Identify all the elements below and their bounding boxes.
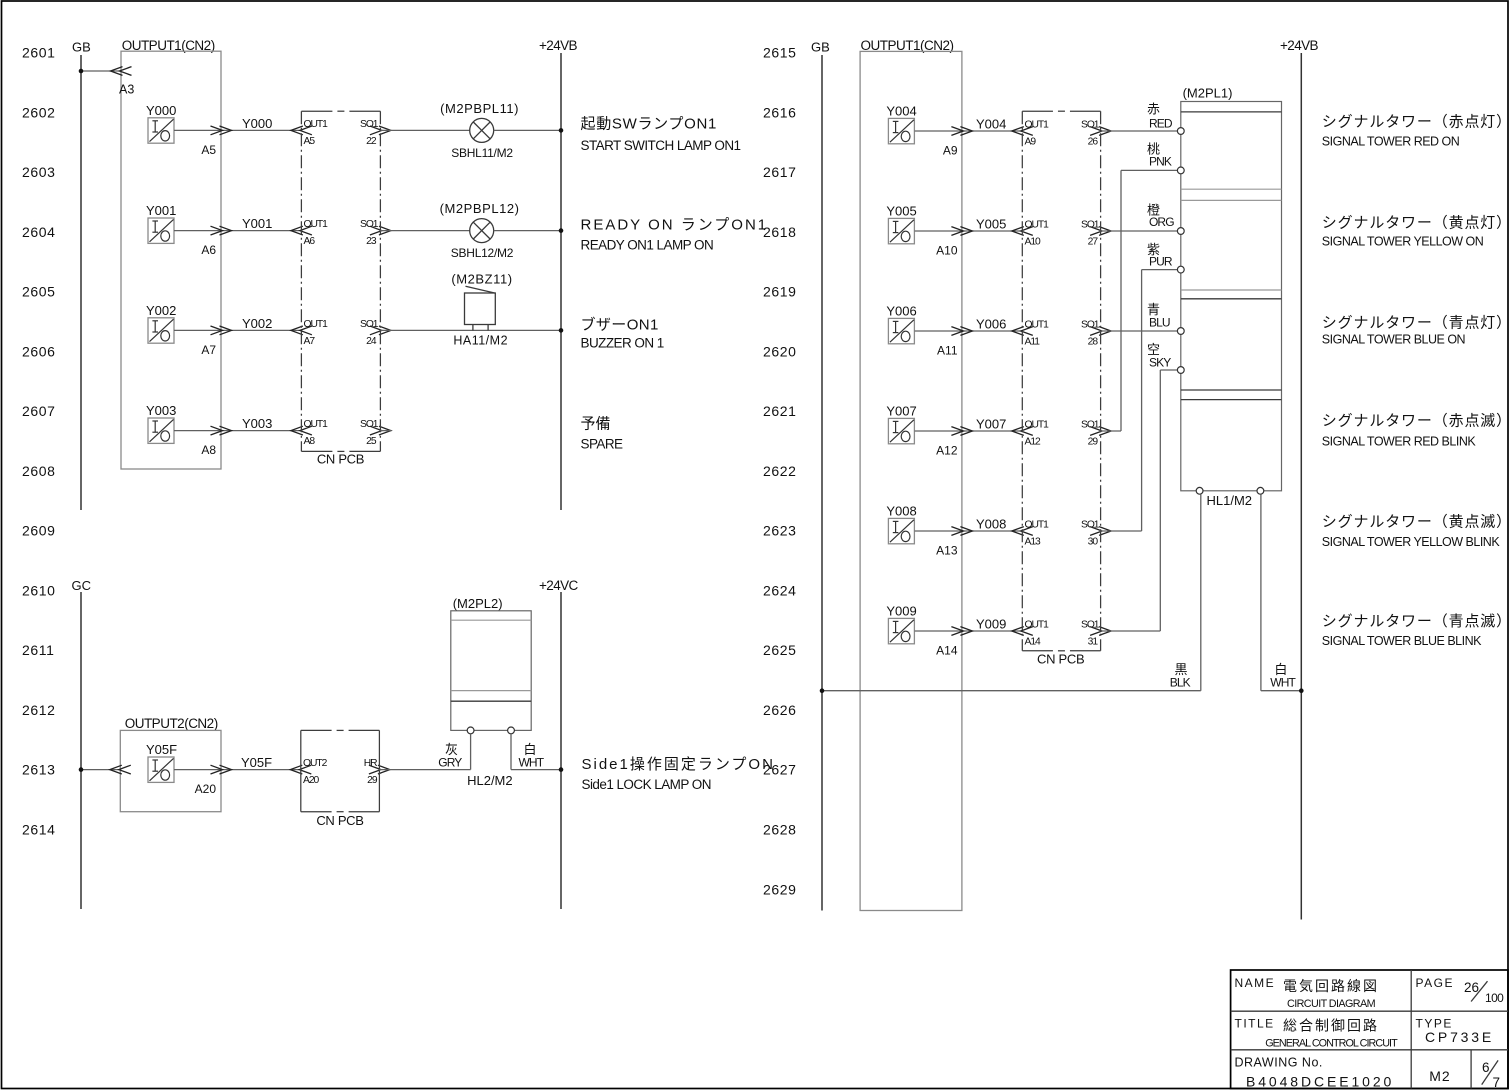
svg-text:PNK: PNK xyxy=(1149,155,1172,169)
svg-text:ORG: ORG xyxy=(1149,215,1174,229)
svg-text:2606: 2606 xyxy=(22,343,56,359)
svg-text:2610: 2610 xyxy=(22,582,56,598)
lamp SBHL12/M2 wire left segment xyxy=(380,230,469,232)
CN PCB pin labels row Y009 xyxy=(1025,620,1100,648)
wire color label PNK xyxy=(1147,141,1172,168)
svg-text:SBHL11/M2: SBHL11/M2 xyxy=(451,146,513,160)
wire Y005 from I/O to CN PCB xyxy=(915,230,1023,232)
svg-text:シグナルタワー（黄点灯）: シグナルタワー（黄点灯） xyxy=(1322,215,1512,232)
svg-text:(M2PL2): (M2PL2) xyxy=(453,596,503,611)
svg-text:WHT: WHT xyxy=(519,756,545,770)
junction dot +24VB row 2604 xyxy=(559,228,564,233)
wire color label PUR xyxy=(1147,242,1173,269)
wire HR to lamp HL2/M2 xyxy=(379,769,470,771)
svg-text:(M2PBPL12): (M2PBPL12) xyxy=(440,201,520,216)
svg-text:2615: 2615 xyxy=(763,45,797,61)
svg-text:Y001: Y001 xyxy=(242,216,272,231)
I/O output block Y007 xyxy=(886,404,916,444)
svg-text:READY ON1 LAMP ON: READY ON1 LAMP ON xyxy=(581,238,714,253)
buzzer HA11/M2 wire xyxy=(380,329,561,331)
svg-text:OUT1: OUT1 xyxy=(1025,620,1050,631)
lamp SBHL12/M2 wire right segment xyxy=(494,230,561,232)
svg-text:電気回路線図: 電気回路線図 xyxy=(1283,978,1379,994)
svg-text:2619: 2619 xyxy=(763,284,797,300)
wire Y000 from I/O to CN PCB xyxy=(174,129,301,131)
svg-text:2608: 2608 xyxy=(22,463,56,479)
svg-text:26: 26 xyxy=(1464,980,1479,995)
svg-text:A9: A9 xyxy=(1025,137,1037,148)
svg-text:空: 空 xyxy=(1147,342,1160,357)
arrow into CN PCB OUT1 row Y002 xyxy=(291,326,312,335)
svg-text:Y05F: Y05F xyxy=(241,755,272,770)
svg-text:OUT2: OUT2 xyxy=(303,758,328,769)
svg-text:6: 6 xyxy=(1482,1060,1490,1075)
svg-text:Y002: Y002 xyxy=(146,303,176,318)
arrow into CN PCB OUT1 row Y003 xyxy=(291,426,312,435)
svg-text:2603: 2603 xyxy=(22,164,56,180)
wire color label WHT tower xyxy=(1270,662,1296,689)
svg-text:+24VC: +24VC xyxy=(539,578,579,593)
svg-text:A14: A14 xyxy=(936,643,958,657)
svg-text:赤: 赤 xyxy=(1147,102,1160,117)
junction dot on GB bus xyxy=(820,688,825,693)
wire Y003 from I/O to CN PCB xyxy=(174,430,301,432)
net GB right bus wire xyxy=(821,55,823,911)
svg-text:SIGNAL TOWER RED BLINK: SIGNAL TOWER RED BLINK xyxy=(1322,435,1477,449)
terminal WHT of HL2/M2 xyxy=(508,727,515,734)
wire BLK vertical xyxy=(1200,494,1202,691)
svg-text:SIGNAL TOWER RED ON: SIGNAL TOWER RED ON xyxy=(1322,134,1460,148)
arrow out of CN PCB SO1 pin 22 xyxy=(370,126,391,135)
arrow out of OUTPUT2 pin A20 xyxy=(211,765,232,774)
svg-text:B4048DCEE1020: B4048DCEE1020 xyxy=(1246,1074,1394,1090)
svg-text:シグナルタワー（赤点灯）: シグナルタワー（赤点灯） xyxy=(1322,114,1512,131)
svg-text:START SWITCH LAMP ON1: START SWITCH LAMP ON1 xyxy=(581,138,741,153)
svg-text:OUT1: OUT1 xyxy=(1025,420,1050,431)
svg-text:A8: A8 xyxy=(304,436,316,447)
tower terminal BLK bottom xyxy=(1196,487,1203,494)
wire color label GRY xyxy=(438,742,462,770)
svg-text:A8: A8 xyxy=(201,443,216,457)
svg-text:31: 31 xyxy=(1088,637,1099,648)
svg-text:2609: 2609 xyxy=(22,523,56,539)
svg-text:2622: 2622 xyxy=(763,463,797,479)
svg-text:Y007: Y007 xyxy=(976,417,1006,432)
svg-text:2611: 2611 xyxy=(22,642,55,658)
svg-text:Y006: Y006 xyxy=(976,317,1006,332)
svg-text:23: 23 xyxy=(366,236,377,247)
svg-text:24: 24 xyxy=(366,336,377,347)
CN PCB pin labels row Y004 xyxy=(1025,120,1100,148)
arrow out of OUTPUT1 pin A10 xyxy=(951,227,972,236)
svg-text:OUT1: OUT1 xyxy=(1025,320,1050,331)
wire pin30 to tower PUR xyxy=(1101,270,1178,531)
arrow out of OUTPUT1 pin A7 xyxy=(211,326,232,335)
title block PAGE cell xyxy=(1416,976,1505,1005)
CN PCB pin labels row Y002 xyxy=(304,319,379,347)
arrow out of OUTPUT1 pin A5 xyxy=(211,126,232,135)
svg-text:2602: 2602 xyxy=(22,104,56,120)
title block NAME cell xyxy=(1235,976,1380,1010)
CN PCB box left (dash-dot) xyxy=(301,111,380,451)
CN PCB pin labels row Y003 xyxy=(304,419,379,447)
net +24VB left bus wire xyxy=(560,53,562,510)
net +24VB right bus wire xyxy=(1300,53,1302,920)
svg-text:A11: A11 xyxy=(937,343,958,357)
svg-text:PAGE: PAGE xyxy=(1416,976,1454,990)
svg-text:総合制御回路: 総合制御回路 xyxy=(1283,1018,1379,1034)
svg-text:DRAWING No.: DRAWING No. xyxy=(1235,1056,1323,1070)
tower terminal PNK xyxy=(1177,167,1184,174)
arrow into CN PCB OUT1 row Y001 xyxy=(291,226,312,235)
svg-text:2607: 2607 xyxy=(22,403,56,419)
svg-text:2624: 2624 xyxy=(763,582,797,598)
svg-text:2605: 2605 xyxy=(22,284,56,300)
svg-text:2620: 2620 xyxy=(763,343,797,359)
svg-text:OUT1: OUT1 xyxy=(304,119,329,130)
arrow out of OUTPUT1 pin A14 xyxy=(951,627,972,636)
wire pin27 to tower ORG xyxy=(1101,230,1178,232)
svg-text:A7: A7 xyxy=(201,343,216,357)
svg-text:A10: A10 xyxy=(1025,237,1041,248)
svg-text:Side1 LOCK LAMP ON: Side1 LOCK LAMP ON xyxy=(582,777,711,792)
CN PCB pin labels row Y001 xyxy=(304,219,379,247)
svg-text:(M2PBPL11): (M2PBPL11) xyxy=(440,101,519,116)
CN PCB pin labels row Y008 xyxy=(1025,520,1100,548)
svg-text:OUT1: OUT1 xyxy=(1025,120,1050,131)
svg-text:Y008: Y008 xyxy=(886,504,916,519)
arrow into OUTPUT2 pin A20 xyxy=(110,765,131,774)
svg-text:Y009: Y009 xyxy=(976,617,1006,632)
svg-text:2628: 2628 xyxy=(763,822,797,838)
I/O output block Y006 xyxy=(886,304,916,344)
svg-text:30: 30 xyxy=(1088,537,1099,548)
svg-text:2623: 2623 xyxy=(763,523,797,539)
junction dot +24VC row 2613 xyxy=(559,767,564,772)
junction on GB at A3 xyxy=(79,69,84,74)
arrow into CN PCB OUT1 row Y007 xyxy=(1012,427,1033,436)
net +24VC bus wire xyxy=(560,592,562,909)
svg-text:(M2PL1): (M2PL1) xyxy=(1183,85,1233,100)
wire color label BLK xyxy=(1170,662,1191,689)
svg-text:Y003: Y003 xyxy=(146,403,176,418)
svg-text:A9: A9 xyxy=(943,143,958,157)
svg-text:シグナルタワー（青点灯）: シグナルタワー（青点灯） xyxy=(1322,314,1512,331)
svg-text:Y007: Y007 xyxy=(886,404,916,419)
svg-text:A7: A7 xyxy=(304,336,316,347)
svg-text:予備: 予備 xyxy=(581,416,611,433)
wire pin31 to tower SKY xyxy=(1101,370,1178,631)
svg-text:BUZZER ON 1: BUZZER ON 1 xyxy=(581,336,664,351)
svg-text:シグナルタワー（青点滅）: シグナルタワー（青点滅） xyxy=(1322,613,1512,630)
svg-text:27: 27 xyxy=(1088,237,1099,248)
svg-text:(M2BZ11): (M2BZ11) xyxy=(451,272,512,287)
svg-text:A13: A13 xyxy=(936,543,958,557)
title block sheet 6/7 cell xyxy=(1482,1060,1500,1090)
arrow out of OUTPUT1 pin A8 xyxy=(211,426,232,435)
arrow out of CN PCB SO1 pin 25 xyxy=(370,426,391,435)
arrow out of CN PCB SO1 pin 26 xyxy=(1090,127,1111,136)
svg-text:22: 22 xyxy=(366,136,377,147)
svg-text:CN PCB: CN PCB xyxy=(1037,652,1084,667)
terminal GRY of HL2/M2 xyxy=(467,727,474,734)
arrow into OUTPUT1 pin A3 xyxy=(111,67,132,76)
svg-text:Y002: Y002 xyxy=(242,316,272,331)
arrow into CN PCB OUT1 row Y008 xyxy=(1012,527,1033,536)
svg-text:Y000: Y000 xyxy=(242,116,272,131)
svg-text:OUT1: OUT1 xyxy=(304,319,329,330)
arrow out of OUTPUT1 pin A12 xyxy=(951,427,972,436)
svg-text:Y008: Y008 xyxy=(976,517,1006,532)
wire Y003 spare stub xyxy=(380,430,391,432)
lamp unit M2PL2 box xyxy=(451,611,531,731)
arrow out of CN PCB HR pin 29 xyxy=(369,765,390,774)
wire pin28 to tower BLU xyxy=(1101,330,1178,332)
svg-text:A13: A13 xyxy=(1025,537,1041,548)
arrow out of CN PCB SO1 pin 31 xyxy=(1090,627,1111,636)
svg-text:HL2/M2: HL2/M2 xyxy=(467,773,513,788)
svg-text:25: 25 xyxy=(366,436,377,447)
svg-text:2614: 2614 xyxy=(22,822,56,838)
svg-text:BLU: BLU xyxy=(1149,315,1170,329)
svg-text:7: 7 xyxy=(1493,1075,1501,1090)
svg-text:A14: A14 xyxy=(1025,637,1041,648)
arrow out of CN PCB SO1 pin 27 xyxy=(1090,227,1111,236)
svg-text:2621: 2621 xyxy=(763,403,797,419)
svg-text:Y004: Y004 xyxy=(886,104,916,119)
arrow into CN PCB OUT1 row Y000 xyxy=(291,126,312,135)
lamp SBHL12/M2 symbol xyxy=(470,219,494,243)
wire Y001 from I/O to CN PCB xyxy=(174,230,301,232)
svg-text:CP733E: CP733E xyxy=(1425,1029,1494,1045)
CN PCB box lower-left (dash-dot) xyxy=(301,730,380,811)
svg-text:HL1/M2: HL1/M2 xyxy=(1207,493,1253,508)
svg-text:RED: RED xyxy=(1149,117,1173,131)
CN PCB pin labels row Y006 xyxy=(1025,320,1100,348)
svg-text:Y009: Y009 xyxy=(886,604,916,619)
wire GRY stub xyxy=(470,734,472,770)
svg-text:2617: 2617 xyxy=(763,164,797,180)
svg-text:Y005: Y005 xyxy=(976,217,1006,232)
svg-text:TITLE: TITLE xyxy=(1235,1016,1275,1030)
svg-text:29: 29 xyxy=(1088,437,1099,448)
svg-text:Side1操作固定ランプON: Side1操作固定ランプON xyxy=(582,756,775,773)
svg-text:OUT1: OUT1 xyxy=(304,419,329,430)
svg-text:OUT1: OUT1 xyxy=(304,219,329,230)
connector OUTPUT1(CN2) left box xyxy=(121,51,221,469)
tower terminal WHT bottom xyxy=(1257,487,1264,494)
CN PCB pin labels row Y000 xyxy=(304,119,379,147)
svg-text:CIRCUIT DIAGRAM: CIRCUIT DIAGRAM xyxy=(1287,998,1376,1010)
svg-text:26: 26 xyxy=(1088,137,1099,148)
I/O output block Y009 xyxy=(886,604,916,644)
svg-text:SIGNAL TOWER YELLOW ON: SIGNAL TOWER YELLOW ON xyxy=(1322,235,1484,249)
svg-text:A5: A5 xyxy=(201,143,216,157)
svg-text:A3: A3 xyxy=(119,83,134,97)
svg-text:Y001: Y001 xyxy=(146,203,176,218)
connector OUTPUT2(CN2) box xyxy=(120,730,221,811)
arrow into CN PCB OUT1 row Y004 xyxy=(1012,127,1033,136)
svg-text:シグナルタワー（黄点滅）: シグナルタワー（黄点滅） xyxy=(1322,514,1512,531)
wire color label ORG xyxy=(1147,202,1174,229)
net GB left bus wire xyxy=(80,55,82,510)
arrow into CN PCB OUT1 row Y005 xyxy=(1012,227,1033,236)
wire color label SKY xyxy=(1147,342,1171,370)
svg-text:ブザーON1: ブザーON1 xyxy=(581,315,659,333)
wire GC to OUTPUT2 xyxy=(81,769,120,771)
svg-text:SIGNAL TOWER BLUE ON: SIGNAL TOWER BLUE ON xyxy=(1322,333,1466,347)
wire pin26 to tower RED xyxy=(1101,130,1178,132)
junction dot WHT +24VB xyxy=(1299,688,1304,693)
svg-text:Y004: Y004 xyxy=(976,117,1006,132)
svg-text:2612: 2612 xyxy=(22,702,56,718)
wire Y009 from I/O to CN PCB xyxy=(915,630,1023,632)
wire color label WHT lamp xyxy=(519,742,545,770)
svg-text:GB: GB xyxy=(72,39,91,54)
svg-text:CN PCB: CN PCB xyxy=(316,813,363,828)
CN PCB pin labels row Y005 xyxy=(1025,220,1100,248)
tower terminal SKY xyxy=(1177,367,1184,374)
svg-text:NAME: NAME xyxy=(1235,976,1276,990)
svg-text:M2: M2 xyxy=(1429,1068,1450,1084)
CN PCB pin labels row Y007 xyxy=(1025,420,1100,448)
svg-text:BLK: BLK xyxy=(1170,676,1191,690)
svg-text:シグナルタワー（赤点滅）: シグナルタワー（赤点滅） xyxy=(1322,413,1512,430)
svg-text:2629: 2629 xyxy=(763,881,797,897)
I/O output block Y001 xyxy=(146,203,176,243)
I/O output block Y008 xyxy=(886,504,916,544)
svg-text:OUT1: OUT1 xyxy=(1025,520,1050,531)
svg-text:GENERAL CONTROL CIRCUIT: GENERAL CONTROL CIRCUIT xyxy=(1265,1038,1398,1050)
arrow into CN PCB OUT2 xyxy=(290,765,311,774)
svg-text:A12: A12 xyxy=(936,443,958,457)
wire color label RED xyxy=(1147,102,1173,131)
svg-text:2601: 2601 xyxy=(22,45,56,61)
wire WHT stub xyxy=(510,734,512,770)
wire GB to OUTPUT1 A3 xyxy=(81,70,121,72)
title block DRAWING No cell xyxy=(1235,1056,1395,1090)
svg-text:2626: 2626 xyxy=(763,702,797,718)
wire WHT to +24VB xyxy=(1261,690,1301,692)
wire Y008 from I/O to CN PCB xyxy=(915,530,1023,532)
lamp SBHL11/M2 wire left segment xyxy=(380,129,469,131)
tower terminal BLU xyxy=(1177,328,1184,335)
wire WHT vertical xyxy=(1260,494,1262,691)
arrow out of CN PCB SO1 pin 30 xyxy=(1090,527,1111,536)
arrow out of CN PCB SO1 pin 23 xyxy=(370,226,391,235)
svg-text:WHT: WHT xyxy=(1270,676,1296,690)
junction dot +24VB row 2602 xyxy=(559,128,564,133)
arrow into CN PCB OUT1 row Y009 xyxy=(1012,627,1033,636)
svg-text:GB: GB xyxy=(811,39,830,54)
svg-text:A11: A11 xyxy=(1025,337,1041,348)
svg-text:OUT1: OUT1 xyxy=(1025,220,1050,231)
wire color label BLU xyxy=(1147,302,1170,329)
junction on GC row 2613 xyxy=(79,767,84,772)
arrow out of CN PCB SO1 pin 28 xyxy=(1090,327,1111,336)
I/O output block Y005 xyxy=(886,204,916,244)
lamp SBHL11/M2 symbol xyxy=(470,118,494,142)
svg-text:+24VB: +24VB xyxy=(539,38,578,53)
svg-text:Y006: Y006 xyxy=(886,304,916,319)
svg-text:Y003: Y003 xyxy=(242,416,272,431)
svg-text:起動SWランプON1: 起動SWランプON1 xyxy=(581,116,718,133)
wire Y004 from I/O to CN PCB xyxy=(915,130,1023,132)
svg-text:SIGNAL TOWER BLUE BLINK: SIGNAL TOWER BLUE BLINK xyxy=(1322,634,1482,648)
arrow out of OUTPUT1 pin A13 xyxy=(951,527,972,536)
svg-text:PUR: PUR xyxy=(1149,255,1173,269)
arrow out of OUTPUT1 pin A9 xyxy=(951,127,972,136)
buzzer HA11/M2 symbol xyxy=(465,286,496,330)
svg-text:A12: A12 xyxy=(1025,437,1041,448)
svg-text:2616: 2616 xyxy=(763,104,797,120)
svg-text:SBHL12/M2: SBHL12/M2 xyxy=(451,246,514,260)
svg-text:A20: A20 xyxy=(195,782,217,796)
svg-text:SKY: SKY xyxy=(1149,356,1171,370)
svg-text:Y005: Y005 xyxy=(886,204,916,219)
svg-text:A6: A6 xyxy=(201,243,216,257)
CN PCB pin labels row Y05F xyxy=(303,758,378,786)
wire WHT to +24VC xyxy=(511,769,561,771)
svg-text:100: 100 xyxy=(1485,991,1504,1005)
svg-text:A10: A10 xyxy=(936,243,958,257)
tower terminal RED xyxy=(1177,128,1184,135)
svg-text:2604: 2604 xyxy=(22,224,56,240)
svg-text:GRY: GRY xyxy=(438,756,462,770)
svg-text:SIGNAL TOWER YELLOW BLINK: SIGNAL TOWER YELLOW BLINK xyxy=(1322,535,1501,549)
svg-text:Y000: Y000 xyxy=(146,103,176,118)
I/O output block Y000 xyxy=(146,103,176,143)
title block TITLE cell xyxy=(1235,1016,1399,1049)
arrow out of CN PCB SO1 pin 29 xyxy=(1090,427,1111,436)
junction dot +24VB row 2606 xyxy=(559,328,564,333)
wire Y006 from I/O to CN PCB xyxy=(915,330,1023,332)
svg-text:CN PCB: CN PCB xyxy=(317,452,364,467)
tower terminal PUR xyxy=(1177,266,1184,273)
I/O output block Y05F xyxy=(146,742,177,782)
svg-text:OUTPUT2(CN2): OUTPUT2(CN2) xyxy=(125,716,218,731)
CN PCB box right (dash-dot) xyxy=(1022,111,1100,651)
svg-text:Y05F: Y05F xyxy=(146,742,177,757)
I/O output block Y004 xyxy=(886,104,916,144)
svg-text:READY ON ランプON1: READY ON ランプON1 xyxy=(581,217,769,234)
svg-text:HA11/M2: HA11/M2 xyxy=(453,334,508,348)
wire Y007 from I/O to CN PCB xyxy=(915,430,1023,432)
svg-text:SPARE: SPARE xyxy=(581,437,624,452)
svg-text:A6: A6 xyxy=(304,236,316,247)
svg-text:+24VB: +24VB xyxy=(1280,38,1319,53)
svg-text:29: 29 xyxy=(367,775,378,786)
net GC bus wire xyxy=(80,592,82,909)
svg-text:28: 28 xyxy=(1088,337,1099,348)
signal tower M2PL1 body xyxy=(1181,102,1282,491)
svg-text:A20: A20 xyxy=(303,775,319,786)
arrow into CN PCB OUT1 row Y006 xyxy=(1012,327,1033,336)
lamp SBHL11/M2 wire right segment xyxy=(494,129,561,131)
connector OUTPUT1(CN2) right box xyxy=(860,51,962,910)
arrow out of OUTPUT1 pin A11 xyxy=(951,327,972,336)
wire bus GB to BLK xyxy=(822,690,1201,692)
arrow out of CN PCB SO1 pin 24 xyxy=(370,326,391,335)
svg-text:2613: 2613 xyxy=(22,762,56,778)
wire Y002 from I/O to CN PCB xyxy=(174,329,301,331)
wire pin29 to tower PNK xyxy=(1101,170,1178,431)
title block xyxy=(1231,970,1508,1089)
title block TYPE cell xyxy=(1416,1016,1494,1045)
arrow out of OUTPUT1 pin A6 xyxy=(211,226,232,235)
tower terminal ORG xyxy=(1177,228,1184,235)
wire Y05F from I/O to CN PCB xyxy=(174,769,301,771)
